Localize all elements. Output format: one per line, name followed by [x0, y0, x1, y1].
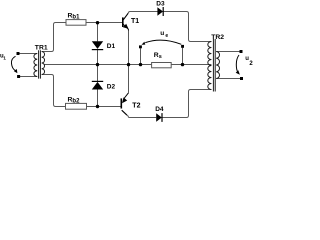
- TR2 core: [213, 39, 215, 92]
- transformer TR2: [208, 39, 220, 92]
- terminal square ue right: [181, 45, 184, 48]
- TR2 secondary winding: [216, 52, 219, 79]
- wire mid rail to T2 emitter: [128, 65, 130, 93]
- wire TR1 secondary bottom to bottom rail: [42, 75, 66, 107]
- wire u1 top terminal to TR1: [20, 53, 38, 55]
- TR2 primary winding: [208, 42, 212, 90]
- wire D1 to mid rail: [97, 50, 99, 65]
- wire ue right terminal to rail: [182, 48, 184, 65]
- arrow u2: [236, 55, 254, 75]
- wire top rail left: [20, 12, 241, 118]
- wire ue left terminal to rail: [140, 48, 142, 64]
- svg-text:e: e: [165, 33, 168, 39]
- arrow ue: [142, 30, 182, 45]
- terminal square ue left: [139, 45, 142, 48]
- junction dot bottom rail: [96, 105, 99, 108]
- transformer TR1: [34, 50, 45, 78]
- junction dot ue right: [181, 63, 184, 66]
- junction dot ue left: [139, 63, 142, 66]
- svg-text:T1: T1: [131, 18, 139, 25]
- wire u1 bottom terminal to TR1: [20, 76, 37, 78]
- svg-text:T2: T2: [132, 103, 140, 110]
- resistor Rs: [152, 63, 172, 68]
- TR1 secondary winding: [42, 52, 45, 75]
- svg-text:TR2: TR2: [211, 34, 224, 41]
- resistor Rb2: [66, 103, 87, 109]
- TR1 core: [39, 50, 41, 78]
- terminal square u2 top: [240, 50, 243, 53]
- transistor T2: [121, 93, 140, 118]
- svg-text:1: 1: [3, 55, 6, 60]
- wire mid rail left: [44, 64, 152, 66]
- wire TR1 secondary top to top rail: [42, 23, 66, 52]
- wire Rb2 to T2 base: [87, 106, 122, 108]
- wire D3 to top right corner and down to TR2: [164, 12, 212, 42]
- wire Rb1 to T1 base: [86, 22, 122, 24]
- terminal square u1 top: [17, 52, 20, 55]
- wire mid rail to D2: [97, 65, 99, 82]
- diode D3: [156, 0, 165, 16]
- svg-text:u: u: [160, 30, 164, 37]
- wire T1 collector to D3: [130, 11, 158, 13]
- transistor T1: [123, 12, 139, 31]
- diode D4: [155, 106, 164, 122]
- wire top rail to D1: [97, 23, 99, 42]
- junction dot emitters: [127, 63, 130, 66]
- svg-text:Rs: Rs: [154, 52, 162, 60]
- svg-text:D1: D1: [107, 43, 116, 50]
- svg-text:Rb2: Rb2: [68, 97, 81, 105]
- wire T2 collector to D4: [129, 117, 157, 119]
- wire mid rail right: [171, 64, 212, 66]
- wire TR2 secondary bottom to u2 terminal: [216, 78, 240, 80]
- svg-text:Rb1: Rb1: [68, 13, 81, 21]
- svg-text:D3: D3: [156, 0, 165, 7]
- wire D2 to bottom base rail: [97, 89, 99, 106]
- junction dot mid rail D-branch: [96, 63, 99, 66]
- svg-text:TR1: TR1: [35, 44, 48, 51]
- terminal square u1 bottom: [17, 75, 20, 78]
- TR1 primary winding: [34, 54, 37, 77]
- diode D2: [92, 81, 116, 90]
- wire T1 emitter down to mid rail: [128, 30, 130, 64]
- junction dot top rail: [96, 21, 99, 24]
- svg-text:D2: D2: [107, 83, 116, 90]
- svg-text:2: 2: [249, 61, 253, 67]
- wire D4 to bottom right corner and up to TR2: [162, 90, 211, 118]
- arrow u1: [0, 53, 17, 73]
- resistor Rb1: [66, 20, 86, 26]
- terminal square u2 bottom: [240, 77, 243, 80]
- diode D1: [92, 41, 116, 50]
- svg-text:D4: D4: [155, 106, 164, 113]
- wire TR2 secondary top to u2 terminal: [216, 51, 240, 53]
